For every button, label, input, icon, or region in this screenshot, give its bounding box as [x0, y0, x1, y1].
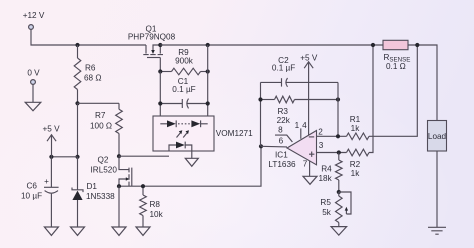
node C1 left — [158, 101, 162, 105]
svg-text:0 V: 0 V — [27, 69, 40, 78]
+12 V supply terminal — [23, 11, 45, 29]
ground VOM — [185, 158, 198, 166]
pin 1 stub — [295, 121, 308, 139]
svg-text:6: 6 — [279, 136, 284, 145]
svg-text:IC1: IC1 — [275, 151, 288, 160]
capacitor C6 10uF — [21, 157, 59, 227]
+5 V arrow left — [42, 124, 60, 156]
wire top rail — [160, 45, 437, 121]
wire Q1 gate down — [159, 58, 161, 72]
wire R6 to R7 — [78, 102, 120, 104]
node C1 right — [206, 101, 210, 105]
optocoupler VOM1271 box — [153, 116, 253, 151]
svg-text:+5 V: +5 V — [300, 54, 318, 63]
wire Q2 gate to opamp — [119, 146, 261, 186]
earth ground — [428, 227, 446, 234]
ground R5 — [331, 227, 347, 236]
wire LED anode — [119, 155, 169, 157]
transistor Q1 PHP79NQ08 — [128, 24, 176, 57]
wire to 5V node — [77, 103, 79, 157]
node Q2 source — [117, 184, 121, 188]
svg-text:C6: C6 — [27, 181, 38, 190]
svg-text:R7: R7 — [95, 111, 106, 120]
svg-text:0.1 µF: 0.1 µF — [272, 63, 295, 72]
svg-text:0.1 Ω: 0.1 Ω — [386, 62, 406, 71]
svg-text:IRL520: IRL520 — [91, 165, 118, 174]
svg-text:900k: 900k — [175, 56, 194, 65]
capacitor C1 0.1uF — [160, 77, 207, 108]
ground R8 — [136, 227, 150, 235]
svg-text:1: 1 — [295, 121, 300, 130]
resistor R2 1k — [317, 45, 374, 178]
0 V terminal — [27, 69, 40, 103]
ground C6 — [44, 227, 58, 235]
svg-text:1N5338: 1N5338 — [86, 192, 115, 201]
svg-text:10k: 10k — [150, 210, 164, 219]
svg-text:100 Ω: 100 Ω — [90, 121, 112, 130]
ground D1 — [71, 227, 85, 235]
svg-text:D1: D1 — [87, 182, 98, 191]
wire 5V node link — [51, 156, 77, 158]
resistor R6 68ohm — [74, 45, 101, 103]
node opamp output — [259, 144, 263, 148]
svg-text:+: + — [44, 177, 49, 186]
svg-text:PHP79NQ08: PHP79NQ08 — [128, 32, 176, 41]
node R1 R3 — [336, 134, 340, 138]
node R4 R5 — [337, 190, 341, 194]
svg-text:18k: 18k — [318, 174, 332, 183]
svg-text:4: 4 — [302, 121, 307, 130]
svg-text:R8: R8 — [150, 200, 161, 209]
svg-text:+12 V: +12 V — [23, 11, 45, 20]
svg-text:22k: 22k — [277, 116, 291, 125]
svg-text:R1: R1 — [350, 115, 361, 124]
svg-text:Q2: Q2 — [98, 155, 109, 164]
node rail R6 — [75, 43, 79, 47]
node R2 R4 — [337, 150, 341, 154]
node R9 right — [206, 69, 210, 73]
node R6 bottom — [75, 101, 79, 105]
svg-text:R5: R5 — [320, 198, 331, 207]
svg-text:1k: 1k — [351, 124, 361, 133]
svg-text:Load: Load — [428, 132, 447, 141]
photodiode 1 — [160, 120, 176, 127]
svg-text:5k: 5k — [322, 208, 332, 217]
node Q1 drain on rail — [158, 43, 162, 47]
svg-text:8: 8 — [278, 125, 283, 134]
node +5V D1 — [75, 155, 79, 159]
resistor R7 100ohm — [90, 103, 122, 156]
svg-text:+5 V: +5 V — [42, 124, 60, 133]
capacitor C2 0.1uF — [261, 56, 339, 87]
node RSENSE right — [415, 43, 419, 47]
svg-text:R6: R6 — [85, 63, 96, 72]
light arrows — [177, 130, 190, 137]
wire +12V to rail — [31, 29, 146, 45]
svg-text:7: 7 — [303, 159, 308, 168]
resistor R4 18k — [318, 153, 342, 193]
svg-text:R4: R4 — [321, 165, 332, 174]
svg-text:LT1636: LT1636 — [268, 160, 296, 169]
svg-text:VOM1271: VOM1271 — [216, 129, 253, 138]
svg-text:R3: R3 — [277, 107, 288, 116]
wire R3 to inverting input — [337, 82, 339, 136]
pin 8 stub — [275, 125, 292, 145]
op-amp IC1 LT1636 — [268, 131, 316, 170]
node R3 left — [258, 97, 262, 101]
wire right column — [207, 45, 209, 124]
node RSENSE left — [371, 43, 375, 47]
resistor R3 22k — [261, 96, 339, 125]
svg-text:10 µF: 10 µF — [21, 192, 42, 201]
ground Q2 — [112, 186, 126, 235]
node R9 left — [158, 69, 162, 73]
ground 0V — [25, 102, 41, 111]
wire left column Q1 gate — [159, 72, 161, 124]
resistor RSENSE 0.1ohm — [383, 40, 410, 71]
svg-text:3: 3 — [319, 141, 324, 150]
node Q2 drain LED — [117, 154, 121, 158]
svg-text:0.1 µF: 0.1 µF — [172, 85, 195, 94]
node rail R9 column — [206, 43, 210, 47]
node R8 top — [141, 184, 145, 188]
svg-text:68 Ω: 68 Ω — [84, 74, 102, 83]
transistor Q2 IRL520 — [91, 155, 132, 186]
svg-text:1k: 1k — [351, 169, 361, 178]
potentiometer R5 5k — [320, 192, 351, 227]
LED emitter — [169, 142, 192, 159]
+5 V arrow opamp — [300, 54, 318, 136]
zener D1 1N5338 — [72, 157, 115, 227]
svg-text:R2: R2 — [350, 160, 361, 169]
resistor R9 900k — [160, 48, 207, 75]
resistor R1 1k — [317, 45, 418, 140]
node R3 right — [336, 97, 340, 101]
load box — [428, 121, 447, 152]
pin 7 ground — [303, 159, 317, 184]
wire feedback column — [260, 82, 262, 146]
svg-text:2: 2 — [318, 128, 323, 137]
wire load to earth — [436, 151, 438, 227]
resistor R8 10k — [140, 186, 164, 227]
wire output to apex — [261, 145, 287, 148]
dotted link — [178, 123, 190, 125]
photodiode 2 — [191, 120, 207, 127]
node +5V C6 — [49, 155, 53, 159]
